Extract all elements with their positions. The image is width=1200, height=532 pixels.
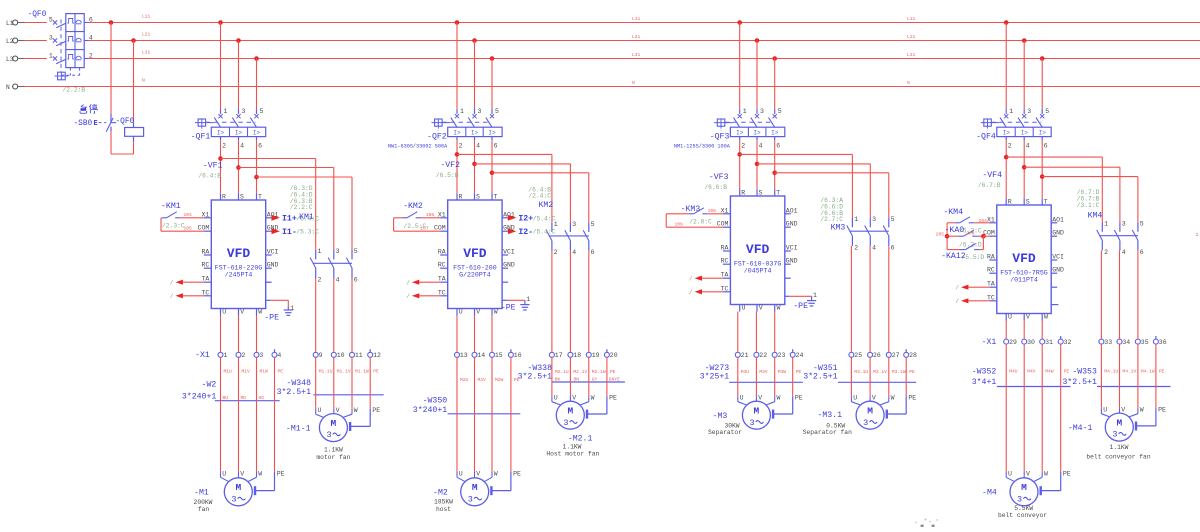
svg-text:I>: I> bbox=[471, 130, 479, 137]
svg-text:3: 3 bbox=[259, 352, 263, 359]
svg-text:T: T bbox=[258, 194, 262, 201]
pin PE VFD4 stub bbox=[1051, 304, 1058, 306]
svg-text:RC: RC bbox=[987, 267, 995, 274]
svg-text:5: 5 bbox=[260, 108, 264, 115]
pin VCI VFD3 bbox=[785, 250, 791, 252]
svg-text:-QF0: -QF0 bbox=[116, 118, 135, 126]
svg-text:N: N bbox=[142, 78, 145, 84]
terminal -X1:13 bbox=[455, 352, 460, 357]
svg-text:/2.3:C: /2.3:C bbox=[162, 223, 185, 230]
wire PE to motor M3 bbox=[773, 357, 793, 418]
wire branch to KM2 pole 1 bbox=[457, 153, 552, 155]
svg-text:W: W bbox=[891, 395, 895, 402]
auxiliary contact -KM2 bbox=[394, 202, 423, 218]
svg-text:M4W: M4W bbox=[1045, 369, 1054, 375]
svg-text:VFD: VFD bbox=[1012, 251, 1036, 266]
svg-text:2: 2 bbox=[854, 244, 858, 251]
svg-text:U: U bbox=[459, 470, 463, 477]
svg-text:27: 27 bbox=[892, 352, 900, 359]
breaker QF2 bbox=[432, 108, 503, 149]
wire L11 bus bbox=[89, 22, 1200, 24]
breaker QF4 bbox=[981, 108, 1051, 149]
wire into terminal from above M1-1 bbox=[315, 278, 317, 352]
terminal -X1:17 bbox=[549, 352, 554, 357]
svg-text:PE: PE bbox=[513, 470, 521, 477]
wire phase V to motor M1-1 bbox=[333, 357, 335, 409]
svg-text:1: 1 bbox=[1009, 108, 1013, 115]
svg-text:W: W bbox=[354, 407, 358, 414]
pin U VFD3 bbox=[739, 305, 741, 312]
svg-text:4: 4 bbox=[240, 142, 244, 149]
svg-text:6: 6 bbox=[1140, 249, 1144, 256]
svg-text:M3.1U: M3.1U bbox=[854, 369, 868, 375]
node branch tap 3.3 bbox=[772, 171, 777, 176]
svg-text:U: U bbox=[222, 309, 226, 316]
svg-text:I>: I> bbox=[771, 130, 779, 137]
svg-text:3: 3 bbox=[1122, 221, 1126, 228]
terminal -X1:23 bbox=[772, 352, 777, 357]
svg-text:M2U: M2U bbox=[460, 377, 469, 383]
pin RA VFD4 bbox=[989, 259, 997, 261]
svg-text:VFD: VFD bbox=[746, 242, 770, 257]
svg-text:M2V: M2V bbox=[478, 377, 487, 383]
svg-text:M: M bbox=[867, 405, 873, 416]
cable -W351 3*2.5+1 bbox=[803, 364, 916, 382]
svg-text:R: R bbox=[1008, 199, 1012, 206]
pin R VFD2 bbox=[456, 193, 458, 200]
svg-text:VCI: VCI bbox=[503, 249, 515, 256]
node branch tap 4.3 bbox=[1040, 174, 1045, 179]
stub above PE terminal 24 bbox=[792, 349, 794, 352]
svg-text:1: 1 bbox=[813, 292, 817, 299]
wire QF1 pole 1 feed from bus bbox=[218, 20, 223, 25]
pin TA VFD1 with outgoing signal arrow bbox=[170, 276, 212, 287]
svg-text:GND: GND bbox=[1052, 230, 1064, 237]
wire branch to KM2 pole 3 bbox=[492, 172, 589, 174]
pin PE VFD2 to earth bbox=[502, 300, 529, 310]
svg-text:2: 2 bbox=[1196, 232, 1199, 238]
svg-text:5: 5 bbox=[778, 108, 782, 115]
wire phase W to motor M2.1 bbox=[588, 357, 590, 396]
svg-text:M3W: M3W bbox=[778, 369, 787, 375]
svg-text:3*4+1: 3*4+1 bbox=[972, 377, 997, 387]
svg-text:I1-: I1- bbox=[282, 228, 297, 237]
svg-text:1: 1 bbox=[318, 248, 322, 255]
auxiliary contact -KM1 bbox=[161, 202, 181, 218]
stub above PE terminal 16 bbox=[510, 349, 512, 352]
svg-text:32: 32 bbox=[1064, 339, 1072, 346]
svg-text:3: 3 bbox=[572, 221, 576, 228]
pin T VFD3 bbox=[774, 189, 776, 196]
svg-text:U: U bbox=[1008, 470, 1012, 477]
pin W VFD3 bbox=[774, 305, 776, 312]
svg-text:2: 2 bbox=[318, 276, 322, 283]
svg-text:M: M bbox=[235, 482, 241, 493]
wire QF4 pole out 2 to VFD bbox=[1005, 140, 1007, 198]
wire phase U to motor M3 bbox=[737, 357, 739, 396]
svg-text:-M2.1: -M2.1 bbox=[568, 435, 593, 444]
svg-text:M1.1V: M1.1V bbox=[337, 369, 351, 375]
svg-text:5: 5 bbox=[891, 216, 895, 223]
svg-text:-SB0: -SB0 bbox=[74, 120, 93, 128]
pin X1 VFD1 bbox=[204, 217, 212, 219]
wire PE to motor M4-1 bbox=[1136, 344, 1156, 430]
svg-text:PE: PE bbox=[1159, 369, 1165, 375]
pin W VFD4 bbox=[1041, 314, 1043, 321]
motor M4-1 3-phase bbox=[1105, 413, 1133, 441]
cable -W350 3*240+1 bbox=[413, 396, 521, 415]
wire QF2 pole out 4 to VFD bbox=[474, 140, 476, 193]
terminal -X1:21 bbox=[735, 352, 740, 357]
svg-text:L31: L31 bbox=[142, 50, 151, 56]
svg-text:/011PT4: /011PT4 bbox=[1010, 276, 1038, 283]
svg-text:PE: PE bbox=[277, 470, 285, 477]
svg-text:/2.7:C: /2.7:C bbox=[820, 216, 843, 223]
wire PE to motor M2.1 bbox=[587, 357, 607, 418]
pin AO1 VFD4 bbox=[1051, 222, 1057, 224]
svg-text:-X1: -X1 bbox=[195, 351, 210, 360]
svg-text:I>: I> bbox=[488, 130, 496, 137]
pushbutton SB0 emergency stop bbox=[94, 114, 117, 132]
svg-text:4: 4 bbox=[476, 142, 480, 149]
svg-text:-W2: -W2 bbox=[202, 381, 217, 390]
wire PE to motor M3.1 bbox=[887, 357, 906, 418]
wire QF4 pole 3 feed from bus bbox=[1022, 38, 1027, 43]
wire into terminal from above M2.1 bbox=[588, 251, 590, 353]
svg-text:30: 30 bbox=[1027, 339, 1035, 346]
svg-text:I>: I> bbox=[253, 130, 261, 137]
terminal -X1:20 bbox=[604, 352, 609, 357]
svg-text:M3V: M3V bbox=[759, 369, 768, 375]
wire phase U to motor M3.1 bbox=[850, 357, 852, 396]
pin GND VFD3 bbox=[785, 263, 791, 265]
svg-text:N: N bbox=[907, 80, 910, 86]
svg-text:I2-: I2- bbox=[518, 228, 533, 237]
svg-text:1: 1 bbox=[854, 216, 858, 223]
svg-text:-PE: -PE bbox=[264, 313, 279, 322]
contactor KM2 main contacts bbox=[546, 221, 594, 256]
title block remnant marks bbox=[915, 519, 938, 528]
wire into terminal from above M1 bbox=[256, 316, 258, 353]
svg-text:21: 21 bbox=[741, 352, 749, 359]
svg-text:2: 2 bbox=[89, 52, 93, 59]
wire branch to KM4 pole 2 bbox=[1024, 166, 1120, 168]
svg-text:M1V: M1V bbox=[242, 369, 251, 375]
wire into terminal from above M3.1 bbox=[850, 246, 852, 352]
breaker QF3 bbox=[714, 108, 785, 149]
wire phase V to motor M4-1 bbox=[1119, 344, 1121, 408]
svg-text:3*25+1: 3*25+1 bbox=[700, 371, 730, 381]
wire phase V to motor M4 bbox=[1023, 344, 1025, 472]
pin GND VFD1 bbox=[266, 267, 272, 269]
svg-text:M: M bbox=[472, 482, 478, 493]
pin S VFD4 bbox=[1023, 198, 1025, 205]
contactor KM4 main contacts bbox=[1097, 221, 1144, 256]
wire branch to KM1 pole 1 bbox=[221, 158, 316, 160]
svg-text:1.1KW: 1.1KW bbox=[1110, 444, 1129, 451]
svg-text:13: 13 bbox=[460, 352, 468, 359]
svg-text:19: 19 bbox=[592, 352, 600, 359]
wire phase W to motor M3 bbox=[774, 357, 776, 396]
wire into terminal from above M1-1 bbox=[351, 278, 353, 352]
terminal -X1:33 bbox=[1099, 339, 1104, 344]
pin AO1 VFD2 bbox=[502, 217, 508, 219]
node branch tap 3.1 bbox=[737, 152, 742, 157]
svg-text:204: 204 bbox=[979, 218, 988, 224]
terminal -X1:27 bbox=[886, 352, 891, 357]
wire phase U to motor M4-1 bbox=[1100, 344, 1102, 408]
svg-text:V: V bbox=[336, 407, 340, 414]
svg-text:5: 5 bbox=[49, 16, 53, 23]
svg-text:-QF4: -QF4 bbox=[976, 132, 996, 141]
pin R VFD4 bbox=[1005, 198, 1007, 205]
svg-text:PE: PE bbox=[796, 369, 802, 375]
wire into terminal from above M3 bbox=[774, 312, 776, 353]
svg-text:M: M bbox=[754, 405, 760, 416]
pin TA VFD4 with outgoing signal arrow bbox=[955, 281, 997, 292]
svg-text:/6.2:D: /6.2:D bbox=[959, 242, 982, 249]
svg-text:N: N bbox=[6, 84, 10, 91]
svg-text:205: 205 bbox=[936, 231, 945, 237]
pin V VFD4 bbox=[1023, 314, 1025, 321]
svg-text:M1.1U: M1.1U bbox=[319, 369, 333, 375]
terminal -X1:1 bbox=[218, 352, 223, 357]
svg-text:/6.7:B: /6.7:B bbox=[978, 182, 1001, 189]
pin COM VFD2 bbox=[440, 230, 448, 232]
wire phase V to motor M3.1 bbox=[869, 357, 871, 396]
svg-text:29: 29 bbox=[1009, 339, 1017, 346]
wire QF1 pole 3 feed from bus bbox=[236, 38, 241, 43]
svg-text:PE: PE bbox=[372, 407, 380, 414]
pin S VFD3 bbox=[756, 189, 758, 196]
svg-text:I>: I> bbox=[1039, 130, 1047, 137]
svg-text:GND: GND bbox=[786, 221, 798, 228]
pin GND VFD1 bbox=[266, 230, 272, 232]
svg-text:W: W bbox=[777, 305, 781, 312]
svg-text:3*2.5+1: 3*2.5+1 bbox=[803, 371, 837, 381]
svg-text:L21: L21 bbox=[907, 34, 916, 40]
svg-text:W: W bbox=[1044, 314, 1048, 321]
signal I1- analog return arrow bbox=[272, 228, 280, 234]
svg-text:-W350: -W350 bbox=[423, 396, 448, 405]
svg-text:5: 5 bbox=[354, 248, 358, 255]
wire aux COM row bbox=[394, 230, 441, 232]
svg-text:E: E bbox=[94, 120, 98, 128]
terminal -X1:31 bbox=[1040, 339, 1045, 344]
svg-text:-M3: -M3 bbox=[713, 412, 728, 421]
svg-text:U: U bbox=[318, 407, 322, 414]
svg-text:M2.1U: M2.1U bbox=[555, 369, 569, 375]
svg-text:NM1-125S/3300 100A: NM1-125S/3300 100A bbox=[674, 144, 731, 150]
svg-text:R: R bbox=[741, 190, 745, 197]
svg-text:22: 22 bbox=[759, 352, 767, 359]
svg-text:Separator fan: Separator fan bbox=[803, 429, 852, 436]
wire QF1 pole out 2 to VFD bbox=[220, 140, 222, 193]
svg-text:36: 36 bbox=[1159, 339, 1167, 346]
svg-text:I>: I> bbox=[753, 130, 761, 137]
svg-text:PE: PE bbox=[373, 369, 379, 375]
wire -KM1 to X1 bbox=[181, 217, 204, 219]
svg-text:S: S bbox=[1026, 199, 1030, 206]
motor M1-1 3-phase bbox=[319, 414, 347, 442]
svg-text:M: M bbox=[331, 418, 337, 429]
svg-text:belt conveyor: belt conveyor bbox=[998, 512, 1047, 519]
svg-text:S: S bbox=[476, 194, 480, 201]
svg-text:M1.1W: M1.1W bbox=[355, 369, 369, 375]
svg-text:15: 15 bbox=[495, 352, 503, 359]
svg-text:14: 14 bbox=[477, 352, 485, 359]
svg-text:-W353: -W353 bbox=[1072, 368, 1097, 377]
node branch tap 1.3 bbox=[254, 175, 259, 180]
pin U VFD4 bbox=[1005, 314, 1007, 321]
svg-text:I>: I> bbox=[736, 130, 744, 137]
stub above PE terminal 12 bbox=[369, 349, 371, 352]
svg-text:109: 109 bbox=[675, 222, 684, 228]
svg-text:108: 108 bbox=[708, 208, 717, 214]
wire into terminal from above M2.1 bbox=[551, 251, 553, 353]
svg-text:28: 28 bbox=[909, 352, 917, 359]
pin T VFD1 bbox=[256, 193, 258, 200]
svg-text:1: 1 bbox=[1104, 221, 1108, 228]
pin T VFD2 bbox=[491, 193, 493, 200]
svg-text:I>: I> bbox=[453, 130, 461, 137]
wire phase W to motor M4-1 bbox=[1137, 344, 1139, 408]
svg-text:U: U bbox=[222, 470, 226, 477]
svg-text:3: 3 bbox=[563, 418, 568, 428]
svg-text:W: W bbox=[1044, 470, 1048, 477]
wire into terminal from above M4-1 bbox=[1119, 250, 1121, 339]
svg-text:4: 4 bbox=[759, 142, 763, 149]
pin RA VFD2 bbox=[440, 254, 448, 256]
svg-text:5: 5 bbox=[1045, 108, 1049, 115]
signal I1+ analog output arrow bbox=[272, 215, 280, 221]
svg-text:5: 5 bbox=[591, 221, 595, 228]
wire branch to KM3 pole 3 bbox=[775, 172, 889, 174]
svg-text:-X1: -X1 bbox=[982, 338, 997, 347]
pin aux VFD3 bbox=[785, 277, 791, 279]
terminal -X1:9 bbox=[313, 352, 318, 357]
pin TC VFD2 with outgoing signal arrow bbox=[406, 289, 448, 300]
svg-text:3: 3 bbox=[1017, 494, 1022, 504]
contactor KM1 main contacts bbox=[310, 248, 358, 283]
wire QF1 pole out 4 to VFD bbox=[238, 140, 240, 193]
node branch tap 2.1 bbox=[455, 152, 460, 157]
svg-text:U: U bbox=[853, 395, 857, 402]
wire aux left leg bbox=[665, 214, 667, 227]
wire QF4 pole 1 feed from bus bbox=[1004, 20, 1009, 25]
svg-text:4: 4 bbox=[89, 34, 93, 41]
wire phase V to motor M3 bbox=[755, 357, 757, 396]
pin VCI VFD1 bbox=[266, 254, 272, 256]
svg-text:1: 1 bbox=[224, 108, 228, 115]
svg-text:3: 3 bbox=[1112, 430, 1117, 440]
svg-text:3*240+1: 3*240+1 bbox=[182, 391, 216, 401]
svg-text:/2.2:C: /2.2:C bbox=[290, 204, 313, 211]
wire branch to KM2 pole 2 bbox=[475, 163, 571, 165]
wire QF1 pole 5 feed from bus bbox=[254, 56, 259, 61]
svg-text:PE: PE bbox=[1063, 470, 1071, 477]
svg-text:W: W bbox=[777, 395, 781, 402]
terminal -X1:12 bbox=[368, 352, 373, 357]
svg-text:PE: PE bbox=[278, 369, 284, 375]
svg-text:5: 5 bbox=[495, 108, 499, 115]
pin T VFD4 bbox=[1041, 198, 1043, 205]
pin COM VFD3 bbox=[723, 226, 731, 228]
svg-text:200KW: 200KW bbox=[194, 499, 213, 506]
motor M3 3-phase bbox=[742, 401, 770, 429]
svg-text:6: 6 bbox=[494, 142, 498, 149]
pin PE VFD3 to earth bbox=[785, 296, 816, 306]
pin X1 VFD2 bbox=[440, 217, 448, 219]
svg-text:L31: L31 bbox=[632, 52, 641, 58]
svg-text:M4U: M4U bbox=[1009, 369, 1018, 375]
pin COM VFD4 bbox=[989, 235, 997, 237]
wire into terminal from above M2 bbox=[474, 316, 476, 353]
terminal -X1:4 bbox=[272, 352, 277, 357]
svg-text:-KM4: -KM4 bbox=[943, 208, 963, 217]
pin W VFD1 bbox=[256, 309, 258, 316]
svg-text:M4V: M4V bbox=[1027, 369, 1036, 375]
wire branch to KM1 pole 3 bbox=[257, 176, 353, 178]
pin X1 VFD3 bbox=[723, 213, 731, 215]
svg-text:L21: L21 bbox=[142, 32, 151, 38]
svg-text:5: 5 bbox=[1140, 221, 1144, 228]
svg-text:V: V bbox=[240, 470, 244, 477]
wire QF1 pole out 6 to VFD bbox=[256, 140, 258, 193]
svg-text:RA: RA bbox=[201, 249, 209, 256]
svg-text:16: 16 bbox=[514, 352, 522, 359]
svg-text:W: W bbox=[494, 470, 498, 477]
terminal -X1:24 bbox=[790, 352, 795, 357]
VFD U3 frequency drive bbox=[730, 196, 784, 305]
svg-text:11: 11 bbox=[355, 352, 363, 359]
terminal -X1:36 bbox=[1153, 339, 1158, 344]
svg-text:V: V bbox=[240, 309, 244, 316]
svg-text:NW1-630S/33002 500A: NW1-630S/33002 500A bbox=[388, 144, 448, 150]
svg-text:I>: I> bbox=[1003, 130, 1011, 137]
pin TC VFD4 with outgoing signal arrow bbox=[955, 294, 997, 305]
svg-text:L21: L21 bbox=[632, 34, 641, 40]
wire into terminal from above M3 bbox=[755, 312, 757, 353]
svg-text:M: M bbox=[567, 405, 573, 416]
wire into terminal from above M1-1 bbox=[333, 278, 335, 352]
pin U VFD2 bbox=[456, 309, 458, 316]
pin RC VFD1 bbox=[204, 267, 212, 269]
wire PE to motor M1 bbox=[255, 357, 275, 495]
svg-text:RC: RC bbox=[438, 262, 446, 269]
svg-text:4: 4 bbox=[572, 249, 576, 256]
wire PE to motor M1-1 bbox=[350, 357, 370, 431]
svg-text:U: U bbox=[740, 395, 744, 402]
svg-text:9: 9 bbox=[319, 352, 323, 359]
svg-text:3: 3 bbox=[326, 430, 331, 440]
svg-text:I>: I> bbox=[235, 130, 243, 137]
node branch tap 4.1 bbox=[1004, 155, 1009, 160]
svg-text:/: / bbox=[689, 275, 693, 282]
auxiliary contact -KM4 bbox=[943, 208, 989, 224]
svg-text:W: W bbox=[258, 470, 262, 477]
svg-text:RA: RA bbox=[987, 254, 995, 261]
svg-text:PE: PE bbox=[909, 369, 915, 375]
svg-text:GND: GND bbox=[786, 258, 798, 265]
svg-text:/: / bbox=[689, 289, 693, 296]
cable -W352 3*4+1 bbox=[972, 368, 1071, 387]
pin V VFD3 bbox=[756, 305, 758, 312]
svg-text:/2.8:C: /2.8:C bbox=[689, 219, 712, 226]
svg-text:206: 206 bbox=[966, 231, 975, 237]
svg-text:RA: RA bbox=[721, 245, 729, 252]
pin GND VFD2 bbox=[502, 267, 508, 269]
